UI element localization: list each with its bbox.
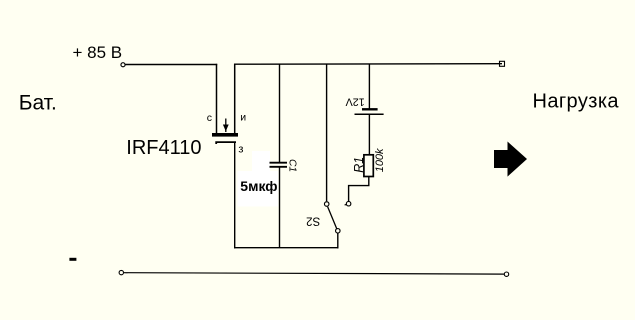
svg-text:+ 85 В: + 85 В bbox=[73, 43, 123, 62]
battery plate long bbox=[355, 113, 384, 115]
battery B1 12V bbox=[345, 64, 384, 155]
transistor Q1 IRF4110 bbox=[126, 111, 246, 159]
transistor gate bar bbox=[216, 142, 236, 144]
svg-text:12V: 12V bbox=[345, 95, 365, 107]
node bottom left terminal bbox=[119, 270, 123, 274]
wire capacitor upper lead bbox=[279, 64, 281, 163]
wire switch pole drop bbox=[337, 233, 339, 248]
wire battery vertical from rail bbox=[368, 64, 370, 110]
svg-text:5мкф: 5мкф bbox=[240, 178, 277, 194]
svg-text:R1: R1 bbox=[352, 157, 366, 173]
resistor body bbox=[364, 155, 373, 177]
svg-text:S2: S2 bbox=[306, 214, 320, 226]
node bottom right terminal bbox=[504, 272, 508, 276]
svg-text:Нагрузка: Нагрузка bbox=[533, 91, 620, 113]
wire top rail right bbox=[234, 63, 502, 65]
svg-text:C1: C1 bbox=[287, 159, 298, 172]
capacitor C1 bbox=[240, 64, 297, 249]
wire switch vertical from rail bbox=[326, 64, 328, 202]
node battery plus terminal bbox=[121, 63, 125, 67]
resistor R1 100k bbox=[349, 148, 386, 201]
transistor channel bar bbox=[212, 133, 238, 137]
svg-text:з: з bbox=[238, 144, 243, 156]
capacitor plate top bbox=[270, 162, 288, 164]
svg-text:с: с bbox=[207, 112, 212, 124]
wire bottom rail bbox=[124, 273, 504, 274]
wire bottom network horizontal bbox=[234, 247, 339, 249]
wire resistor bottom lead bbox=[349, 177, 369, 202]
switch contact node left bbox=[324, 202, 329, 207]
svg-text:Бат.: Бат. bbox=[19, 92, 57, 115]
capacitor plate bottom bbox=[270, 166, 288, 168]
battery plate short bbox=[362, 108, 378, 110]
white patch behind 5мкф label bbox=[238, 171, 279, 207]
wire drain vertical bbox=[216, 64, 218, 134]
wire capacitor lower lead bbox=[279, 168, 281, 249]
transistor body arrow head bbox=[223, 125, 229, 132]
wire gate vertical bbox=[234, 143, 236, 249]
switch lever bbox=[328, 207, 337, 229]
svg-text:и: и bbox=[240, 111, 246, 123]
label minus terminal bbox=[69, 258, 76, 261]
load direction arrow bbox=[494, 142, 527, 177]
svg-text:IRF4110: IRF4110 bbox=[126, 137, 201, 159]
switch S2 bbox=[306, 64, 351, 249]
wire battery to resistor bbox=[368, 115, 370, 155]
transistor body arrow line bbox=[225, 119, 227, 133]
wire top rail left bbox=[125, 64, 217, 66]
switch right contact stub bbox=[345, 204, 347, 206]
switch contact node right bbox=[346, 201, 351, 206]
switch pole node bbox=[336, 229, 341, 234]
svg-text:100k: 100k bbox=[374, 148, 386, 172]
wire source vertical bbox=[234, 64, 236, 134]
white patch behind capacitor labels bbox=[252, 151, 270, 172]
node load terminal square bbox=[500, 61, 505, 66]
